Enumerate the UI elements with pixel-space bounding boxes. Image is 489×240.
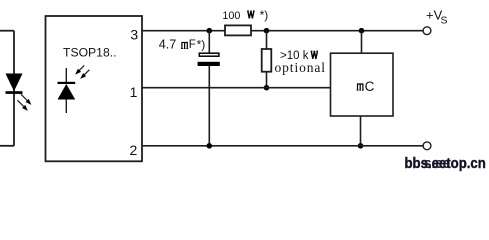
watermark bbs.eetop.cn (purple main copy) <box>405 154 486 171</box>
svg-text:3: 3 <box>130 26 138 42</box>
svg-text:4.7: 4.7 <box>159 38 177 52</box>
label optional <box>275 60 326 75</box>
wire: transmitter vertical segment <box>13 31 15 146</box>
pin 1 label <box>130 84 138 100</box>
svg-text:F: F <box>189 39 196 51</box>
wire: mC supply stub from top rail <box>361 31 363 54</box>
wire: capacitor C1 down to bottom rail <box>208 66 210 146</box>
wire: resistor R2 down to pin 1 wire <box>266 72 268 88</box>
svg-text:TSOP18..: TSOP18.. <box>63 46 117 60</box>
pin 3 label <box>130 26 138 42</box>
terminal +Vs (open circle) <box>423 27 431 35</box>
svg-text:100: 100 <box>222 10 240 22</box>
watermark bbs.eetop.cn (blue ghost copy) <box>424 155 450 172</box>
wire: pin 2 bottom rail (GND) <box>142 145 423 147</box>
svg-text:S: S <box>441 15 448 27</box>
svg-text:2: 2 <box>130 142 138 158</box>
photodiode D2 inside TSOP (cathode bar + triangle, receiver) <box>58 68 76 113</box>
photodiode D2 incoming arrow (upper) <box>75 65 84 74</box>
capacitor C1 4.7 uF (polarized: hollow top plate, solid bottom plate) <box>198 53 220 66</box>
label +Vs <box>426 7 448 26</box>
label >10 kOhm <box>280 50 318 62</box>
wire: pin 3 to resistor R1 <box>142 30 225 32</box>
pin 2 label <box>130 142 138 158</box>
wire: resistor R1 to +Vs terminal <box>251 30 423 32</box>
svg-text:*): *) <box>197 38 206 52</box>
label mC (microcontroller) <box>357 79 375 94</box>
wire: transmitter loop top segment <box>0 30 14 32</box>
label 4.7 uF *) <box>159 38 205 52</box>
LED D1 (IR emitter diode, anode triangle + cathode bar) <box>6 74 23 94</box>
wire: mC ground stub to bottom rail <box>360 116 362 146</box>
wire: transmitter loop bottom segment <box>0 145 14 147</box>
resistor R2 >10 kOhm pull-up <box>262 49 272 72</box>
node: junction top wire / mC supply <box>359 28 365 34</box>
svg-text:C: C <box>365 79 375 94</box>
svg-text:*): *) <box>260 8 269 22</box>
LED D1 emission arrow (lower) <box>17 100 28 111</box>
resistor R1 100 Ohm <box>225 25 251 35</box>
node: junction R2 / pin 1 wire <box>264 85 270 91</box>
LED D1 emission arrow (upper) <box>21 94 32 105</box>
label 100 Ohm *) <box>222 8 268 22</box>
IC U2 microcontroller box <box>331 53 394 116</box>
label TSOP18.. <box>63 46 117 60</box>
node: junction top wire / capacitor C1 <box>207 28 213 34</box>
photodiode D2 incoming arrow (lower) <box>80 70 89 79</box>
svg-text:optional: optional <box>275 60 326 75</box>
svg-text:1: 1 <box>130 84 138 100</box>
node: junction top wire / resistor R2 <box>264 28 270 34</box>
IC U1 TSOP18.. receiver box <box>46 16 143 161</box>
wire: top junction down to capacitor C1 <box>208 31 210 53</box>
terminal GND (open circle) <box>423 142 431 150</box>
svg-text:bbs.eetop.cn: bbs.eetop.cn <box>405 154 486 171</box>
wire: pin 1 to mC input <box>142 87 331 89</box>
node: junction mC ground / bottom rail <box>358 143 364 149</box>
node: junction capacitor C1 / bottom rail <box>207 143 213 149</box>
wire: top junction down to resistor R2 <box>266 31 268 49</box>
